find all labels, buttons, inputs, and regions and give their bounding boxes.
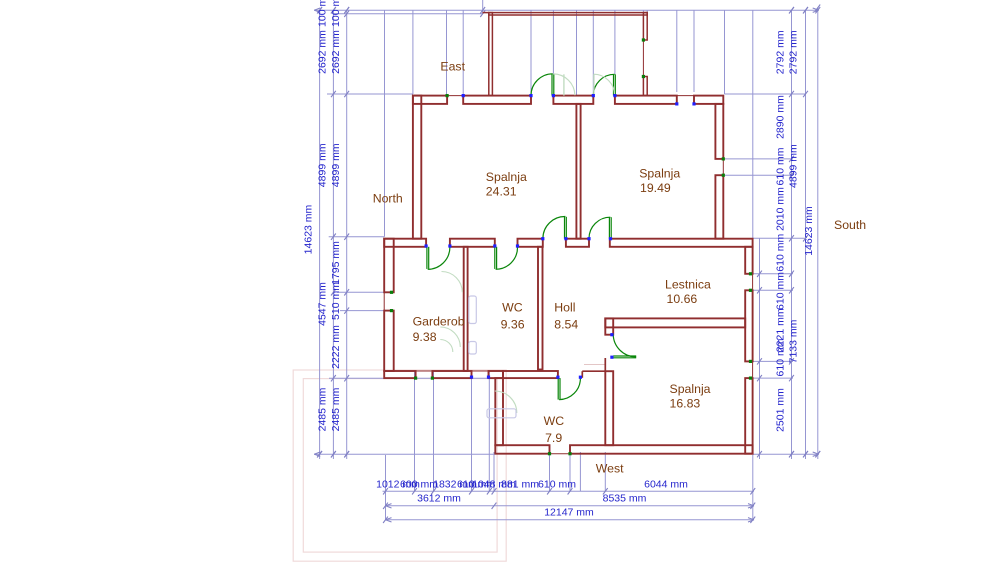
left tick line y236.7: [329, 236, 385, 238]
svg-text:2485 mm: 2485 mm: [316, 387, 328, 431]
window W8 right wall: [752, 274, 754, 291]
dimension line left L3: [346, 10, 348, 459]
svg-text:North: North: [373, 191, 403, 205]
svg-text:1795 mm: 1795 mm: [330, 241, 342, 285]
bedroom 16.83 left wall below door: [604, 358, 606, 371]
svg-text:2501 mm: 2501 mm: [775, 388, 787, 432]
dimension line right R0: [759, 238, 761, 459]
door balcony D1 leaf: [551, 74, 553, 96]
dimension line right R3 (14623 mm): [817, 8, 819, 459]
bottom chain line B1: [383, 490, 755, 492]
window W7 garderob bottom: [472, 370, 489, 372]
wall corridor wall C2: [450, 239, 495, 247]
balcony right wall upper: [643, 13, 647, 40]
svg-text:8.54: 8.54: [554, 318, 578, 332]
wall lower-left exterior left lower: [384, 311, 394, 371]
wall bedroom-block left exterior: [413, 96, 421, 239]
wall wc bottom R4: [503, 371, 558, 378]
svg-text:7.9: 7.9: [545, 431, 562, 445]
dimension line right R1: [791, 10, 793, 459]
svg-text:South: South: [834, 218, 866, 232]
svg-text:14623 mm: 14623 mm: [803, 206, 815, 256]
right tick line y378.1: [753, 377, 793, 379]
wall corridor wall C5 (Lestnica top): [610, 239, 753, 247]
svg-text:610 mm: 610 mm: [775, 147, 787, 185]
wall exterior top T5: [694, 96, 723, 104]
right tick line y273.8: [753, 273, 793, 275]
svg-text:WC: WC: [544, 414, 565, 428]
door garderob leaf: [426, 247, 428, 269]
right tick line y238.3: [753, 237, 806, 239]
door bedroom24 arc: [543, 216, 566, 238]
wall exterior top T2: [463, 96, 531, 104]
svg-text:Lestnica: Lestnica: [665, 278, 711, 292]
ghost door D2b: [593, 74, 595, 95]
left tick line y310.6: [340, 310, 392, 312]
window W5 left wall: [383, 292, 385, 310]
wall exterior top T1: [413, 96, 447, 104]
holl step wall: [582, 370, 605, 372]
svg-text:12147 mm: 12147 mm: [544, 507, 594, 519]
door wc936 arc: [496, 247, 518, 269]
door bedroom16 leaf: [613, 355, 636, 357]
window W2 top wall: [677, 95, 694, 97]
wall wc-holl divider: [538, 247, 543, 370]
right tick line y361.4: [753, 360, 793, 362]
svg-text:10.66: 10.66: [667, 292, 698, 306]
top dimension line 2 (100 mm offset): [333, 13, 482, 15]
door bedroom24 leaf: [564, 217, 566, 239]
svg-text:610 mm: 610 mm: [775, 272, 787, 310]
wall corridor wall C4: [566, 239, 589, 247]
wall right exterior lower: [745, 378, 752, 454]
svg-text:7133 mm: 7133 mm: [788, 319, 800, 363]
svg-text:Holl: Holl: [554, 301, 575, 315]
door wc79 arc: [559, 378, 580, 399]
bottom chain line B3: [386, 519, 755, 521]
wall garderob bottom R3: [489, 371, 504, 378]
svg-text:2010 mm: 2010 mm: [775, 187, 787, 231]
wall right exterior upper: [745, 247, 752, 274]
dimension line left L1 (14623 mm): [319, 10, 321, 459]
svg-text:WC: WC: [502, 301, 523, 315]
svg-text:2222 mm: 2222 mm: [330, 325, 342, 369]
svg-text:881 mm: 881 mm: [501, 479, 539, 491]
wall exterior top T4: [615, 96, 677, 104]
svg-text:610 mm: 610 mm: [775, 338, 787, 376]
balcony top wall: [489, 13, 647, 15]
wall bottom exterior right part: [570, 445, 753, 454]
svg-text:Spalnja: Spalnja: [486, 170, 527, 184]
svg-text:2485 mm: 2485 mm: [330, 387, 342, 431]
svg-text:Garderob: Garderob: [413, 315, 465, 329]
window W3 right wall: [722, 159, 724, 175]
wall garderob-wc divider: [464, 247, 468, 371]
door wc79 leaf: [557, 378, 559, 400]
svg-text:3612 mm: 3612 mm: [417, 492, 461, 504]
svg-text:East: East: [440, 59, 465, 73]
balcony right wall lower: [643, 77, 647, 96]
wall bottom exterior left part: [495, 445, 549, 454]
wall lower-left exterior left upper: [384, 239, 394, 293]
wall garderob bottom R1: [384, 371, 415, 378]
wall bedroom 19.49 right exterior lower: [715, 175, 723, 239]
right tick line y94: [725, 93, 807, 95]
svg-text:2890 mm: 2890 mm: [775, 95, 787, 139]
svg-text:2692 mm: 2692 mm: [316, 30, 328, 74]
left tick line y292.3: [337, 291, 392, 293]
wall exterior top T3: [553, 96, 593, 104]
svg-text:2692 mm: 2692 mm: [330, 30, 342, 74]
svg-text:6044 mm: 6044 mm: [644, 479, 688, 491]
svg-text:4547 mm: 4547 mm: [316, 282, 328, 326]
svg-text:100 mm: 100 mm: [330, 0, 342, 27]
window W1 top wall: [447, 95, 463, 97]
left tick line y94: [327, 93, 413, 95]
svg-text:2792 mm: 2792 mm: [788, 30, 800, 74]
svg-text:Spalnja: Spalnja: [639, 167, 680, 181]
svg-text:8535 mm: 8535 mm: [603, 492, 647, 504]
door bedroom16 arc: [613, 334, 636, 357]
dimension line right R2: [805, 10, 807, 459]
window W10 bottom wall: [550, 453, 571, 455]
svg-text:Spalnja: Spalnja: [670, 382, 711, 396]
ghost arc garderob: [442, 272, 463, 293]
window W6 garderob bottom: [416, 370, 433, 372]
svg-text:2792 mm: 2792 mm: [775, 30, 787, 74]
door balcony D2 leaf: [613, 74, 615, 95]
wall wc7.9 left wall: [495, 378, 503, 445]
wall bedroom divider: [576, 104, 580, 239]
wall corridor wall C1: [384, 239, 426, 247]
svg-text:9.38: 9.38: [413, 330, 437, 344]
svg-text:4899 mm: 4899 mm: [330, 143, 342, 187]
balcony top wall left stub: [483, 12, 489, 14]
wall bedroom 16.83 left jamb: [605, 318, 613, 334]
door bedroom19 leaf: [608, 217, 610, 239]
right tick line y175.2: [725, 174, 793, 176]
ghost door D1b: [563, 74, 565, 95]
bottom tick line y454.2 left: [314, 453, 494, 455]
pale fixtures garderob / wc: [469, 296, 477, 324]
dimension extension lines below building: [385, 455, 387, 521]
bottom chain line B2: [386, 505, 755, 507]
right tick line y290.3: [753, 289, 793, 291]
svg-text:610 mm: 610 mm: [775, 233, 787, 271]
svg-text:19.49: 19.49: [640, 181, 671, 195]
wall right exterior mid: [745, 290, 752, 361]
window W9 right wall: [752, 361, 754, 378]
bottom tick line y454.2 right: [753, 453, 819, 455]
svg-text:West: West: [596, 462, 624, 476]
wall corridor wall C3: [518, 239, 543, 247]
wall lestnica bottom wall: [605, 318, 745, 327]
door garderob arc: [428, 247, 450, 269]
svg-text:24.31: 24.31: [486, 185, 517, 199]
svg-text:9.36: 9.36: [501, 318, 525, 332]
balcony left wall: [489, 13, 493, 96]
ghost terrace outline inner: [303, 379, 497, 552]
wall garderob bottom R2: [432, 371, 471, 378]
dimension ticks: [317, 7, 322, 13]
svg-text:14623 mm: 14623 mm: [303, 204, 315, 254]
wall bedroom 19.49 right exterior upper: [715, 104, 723, 159]
svg-text:4899 mm: 4899 mm: [788, 144, 800, 188]
svg-text:510 mm: 510 mm: [330, 282, 342, 320]
svg-text:16.83: 16.83: [670, 397, 701, 411]
door balcony D2 arc: [593, 74, 614, 95]
window W4 balcony right wall: [642, 40, 644, 77]
door bedroom19 arc: [589, 217, 610, 238]
ghost terrace outline outer: [293, 370, 506, 561]
svg-text:100 mm: 100 mm: [316, 0, 328, 27]
top dimension line: [314, 9, 819, 11]
window and door markers: [446, 94, 449, 97]
door balcony D1 arc: [531, 74, 553, 96]
right tick line y158.9: [725, 158, 793, 160]
door wc936 leaf: [494, 247, 496, 269]
svg-text:610 mm: 610 mm: [538, 479, 576, 491]
dimension arrows: [314, 8, 320, 10]
left tick line y378.2: [329, 377, 495, 379]
dimension extension lines above building: [384, 10, 386, 237]
svg-text:4899 mm: 4899 mm: [316, 143, 328, 187]
wall bedroom 16.83 left wall: [605, 371, 613, 445]
dimension line left L2: [332, 10, 334, 459]
pale fixtures wc79: [495, 391, 517, 413]
